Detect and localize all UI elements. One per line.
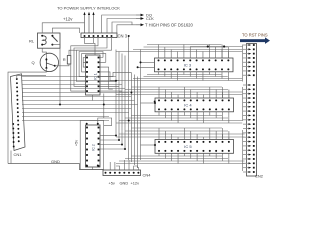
connector CN3 [81,33,117,38]
svg-text:TO POWER SUPPLY INTERLOCK: TO POWER SUPPLY INTERLOCK [57,6,120,11]
signal arrow T HIGH PINS OF DS1620 [136,22,193,27]
op IC5 [155,140,234,154]
svg-text:IC 2: IC 2 [92,144,96,151]
wire last-pin risers [222,45,229,140]
svg-text:+12v: +12v [131,180,140,185]
wire CN2 feed vertical B [242,87,244,121]
interlock up-arrows [83,12,94,33]
svg-text:R: R [63,57,66,62]
svg-text:GND: GND [120,180,129,185]
wire comb IC4 [116,87,242,123]
svg-text:CN4: CN4 [143,172,152,177]
wire relay common [52,45,60,105]
svg-text:CLK: CLK [146,16,154,21]
wire relay contact to CN3 [52,28,79,33]
wire feeder left of IC3 [138,50,155,161]
wire CN2 feed vertical C [242,130,244,171]
svg-text:TO RST PINS: TO RST PINS [242,32,268,37]
svg-text:+5v: +5v [75,140,79,146]
resistor R [67,56,71,65]
connector CN2 [243,44,257,177]
wire CN4 stubs [106,160,139,170]
connector CN4 [103,170,141,176]
svg-text:IC 5: IC 5 [184,144,192,149]
svg-text:CN1: CN1 [14,152,23,157]
relay RL [38,33,61,48]
wire relay coil to +12V rail [42,23,84,33]
wire vertical bus [94,36,138,168]
svg-text:CN 3: CN 3 [118,33,128,38]
op IC3 [155,58,234,72]
wire comb IC3 [116,45,242,81]
wire CN3 to DQ/CLK nets [102,15,136,33]
wire comb IC5 [116,128,245,164]
op IC4 [155,98,234,112]
svg-text:IC 3: IC 3 [184,63,192,68]
svg-text:CN2: CN2 [255,174,264,179]
transistor Q [40,53,58,71]
net GND rail [8,164,103,170]
svg-text:GND: GND [51,159,60,164]
arrow TO RST PINS [240,37,270,44]
connector CN1 [11,74,26,151]
wire R to logic [69,50,96,55]
svg-text:+5v: +5v [109,180,115,185]
wire mesh CN3 to IC1 [71,38,112,92]
wire relay coil to Q collector [42,48,46,58]
wire bus CN1 [11,75,138,163]
signal arrow CLK [136,16,154,21]
wire top net to CN2 [190,45,243,47]
op IC1 [86,55,101,95]
junction dots [59,104,61,106]
wire Q emitter to GND [8,68,46,164]
op IC2 [86,125,101,167]
svg-text:Q: Q [32,60,35,65]
svg-text:T HIGH PINS OF DS1620: T HIGH PINS OF DS1620 [145,22,193,27]
wire mesh IC2 [93,94,125,171]
wire CN2 feed vertical A [242,45,244,82]
signal arrow DQ [136,13,152,18]
module box around IC2 [80,120,104,169]
wire mesh IC1 right [85,38,132,101]
svg-text:IC 4: IC 4 [184,103,192,108]
wire Q base to R [55,64,69,66]
svg-text:RL: RL [29,39,35,44]
svg-text:+12v: +12v [63,17,73,22]
